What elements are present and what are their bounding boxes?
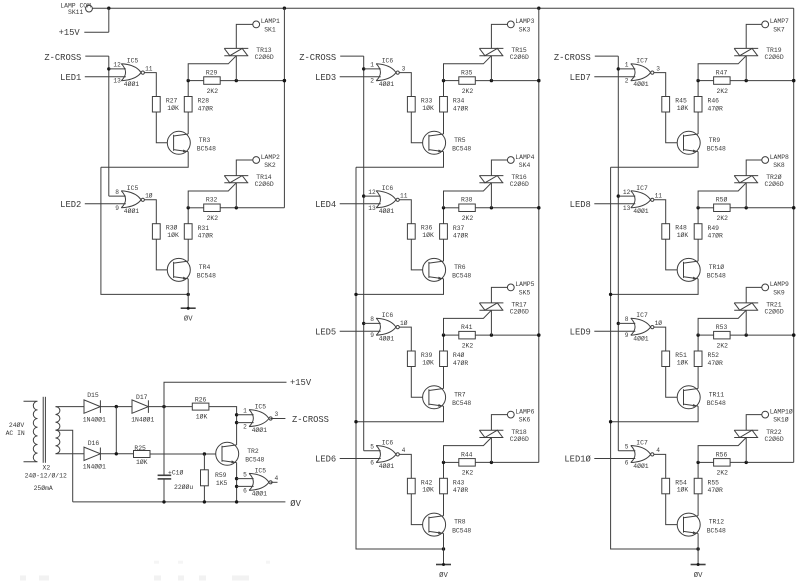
svg-text:4ØØ1: 4ØØ1: [379, 462, 395, 470]
svg-text:1Ø: 1Ø: [145, 192, 153, 199]
svg-text:TR15: TR15: [511, 47, 527, 54]
svg-text:AC IN: AC IN: [6, 430, 25, 437]
svg-text:BC548: BC548: [197, 273, 216, 280]
wire Z-CROSS bus tap to IC6 pin 12: [364, 195, 381, 197]
triac TR14: [188, 174, 274, 208]
svg-text:9: 9: [115, 205, 119, 212]
NOR gate IC7 (12,13->11): [623, 185, 662, 215]
NOR gate IC7 (5,6->4): [625, 439, 660, 469]
svg-text:1ØK: 1ØK: [167, 231, 179, 239]
svg-text:3: 3: [275, 411, 279, 418]
wire secondary bottom lead: [56, 453, 85, 455]
svg-text:R37: R37: [453, 225, 465, 232]
resistor R25 10K: [134, 445, 151, 466]
diode D15 1N4001: [83, 392, 106, 424]
svg-text:3: 3: [656, 65, 660, 72]
resistor R43 470R: [440, 462, 469, 515]
svg-text:4: 4: [402, 447, 406, 454]
wire emitter 0V rail vertical: [356, 167, 445, 551]
svg-text:R54: R54: [675, 479, 687, 486]
svg-text:1ØK: 1ØK: [677, 486, 689, 494]
svg-text:SK5: SK5: [519, 289, 531, 296]
svg-text:22ØØu: 22ØØu: [174, 483, 193, 491]
svg-text:1ØK: 1ØK: [167, 104, 179, 112]
resistor R35 2K2: [459, 70, 476, 95]
wire IC6 pin 4 to R42: [399, 454, 411, 478]
svg-text:1ØK: 1ØK: [422, 104, 434, 112]
transistor TR3: [167, 131, 216, 154]
svg-text:D15: D15: [87, 392, 99, 399]
transistor TR9: [677, 131, 726, 154]
wire TR3 emitter to 0V rail: [101, 152, 188, 168]
wire R30 to TR4 base: [156, 239, 173, 270]
resistor R42 10K: [407, 478, 434, 494]
wire IC6 pin 11 to R36: [399, 200, 411, 224]
svg-text:SK11: SK11: [68, 9, 84, 16]
svg-text:4ØØ1: 4ØØ1: [124, 207, 140, 215]
NOR gate IC7 (8,9->10): [625, 312, 663, 342]
svg-text:1ØK: 1ØK: [196, 412, 208, 420]
triac TR13: [188, 47, 274, 81]
wire TR11 emitter to 0V rail: [609, 406, 698, 423]
svg-text:LAMP6: LAMP6: [515, 408, 534, 415]
svg-text:ØV: ØV: [184, 315, 193, 324]
wire D16 cathode to R25: [100, 452, 133, 455]
svg-text:TR6: TR6: [454, 264, 466, 271]
wire Z-CROSS bus tap to IC6 pin 8: [364, 322, 381, 324]
wire gate-node line (R56): [696, 461, 793, 464]
wire centre tap to 0V: [56, 430, 73, 502]
node +15V (top left): [59, 8, 109, 38]
node LED5: [315, 327, 381, 337]
wire Z-CROSS bus tap to IC7 pin 12: [618, 195, 635, 197]
svg-text:R31: R31: [198, 225, 210, 232]
svg-text:47ØR: 47ØR: [198, 232, 214, 240]
wire IC5 pin5 input: [237, 478, 254, 480]
wire TR2 emitter to 0V: [235, 463, 238, 502]
svg-text:D16: D16: [88, 440, 100, 447]
resistor R33 10K: [407, 97, 434, 113]
wire TR6 emitter to 0V rail: [354, 279, 443, 296]
svg-text:6: 6: [370, 459, 374, 466]
transistor TR8: [423, 513, 472, 536]
svg-text:1: 1: [243, 408, 247, 415]
lamp terminal LAMP8 SK8: [762, 154, 789, 169]
resistor R38 2K2: [459, 197, 476, 222]
svg-text:BC548: BC548: [707, 527, 726, 534]
lamp terminal LAMP10 SK10: [762, 407, 793, 423]
svg-text:ØV: ØV: [694, 571, 703, 580]
lamp terminal LAMP1 SK1: [253, 18, 280, 33]
resistor R46 470R: [694, 81, 723, 134]
svg-text:R36: R36: [421, 225, 433, 232]
svg-text:SK1: SK1: [264, 26, 276, 33]
wire R51 to TR11 base: [666, 367, 684, 398]
resistor R34 470R: [440, 81, 469, 134]
wire TR8 emitter to 0V rail: [443, 533, 445, 549]
svg-text:1N4ØØ1: 1N4ØØ1: [131, 415, 154, 423]
transistor TR11: [677, 386, 726, 409]
svg-text:C2Ø6D: C2Ø6D: [510, 180, 529, 188]
wire D17 cathode to R26: [148, 405, 192, 408]
wire R33 to TR5 base: [411, 112, 429, 143]
resistor R47 2K2: [714, 70, 731, 95]
svg-text:R28: R28: [198, 98, 210, 105]
wire gate-node line (R47): [696, 79, 795, 82]
NOR gate IC5 (1,2->3) zero-cross detector: [243, 404, 278, 434]
wire Z-CROSS bus tap to IC7 pin 5: [618, 450, 635, 452]
svg-text:24ØV: 24ØV: [9, 421, 25, 429]
svg-text:8: 8: [625, 316, 629, 323]
svg-text:C2Ø6D: C2Ø6D: [510, 53, 529, 61]
svg-text:2K2: 2K2: [462, 215, 474, 222]
lamp terminal LAMP5 SK5: [507, 281, 534, 296]
resistor R31 470R: [184, 208, 213, 261]
svg-text:+15V: +15V: [59, 28, 81, 38]
svg-text:BC548: BC548: [197, 146, 216, 153]
node LED1: [60, 73, 126, 83]
wire lamp-common vertical: [792, 8, 795, 462]
svg-text:R44: R44: [461, 451, 473, 458]
wire R36 to TR6 base: [411, 239, 429, 270]
svg-text:C2Ø6D: C2Ø6D: [510, 308, 529, 316]
svg-text:LAMP5: LAMP5: [515, 281, 534, 288]
svg-text:R46: R46: [708, 98, 720, 105]
transistor TR4: [167, 258, 216, 281]
svg-text:TR16: TR16: [511, 174, 527, 181]
faint scan artifacts at bottom edge: [20, 561, 270, 581]
wire IC5 pin6 input: [237, 485, 254, 487]
svg-text:R3Ø: R3Ø: [166, 224, 178, 232]
svg-text:TR21: TR21: [766, 302, 782, 309]
svg-text:TR4: TR4: [199, 264, 211, 271]
svg-text:LAMP2: LAMP2: [261, 154, 280, 161]
wire TR7 emitter to 0V rail: [354, 406, 443, 423]
svg-text:R48: R48: [675, 225, 687, 232]
resistor R29 2K2: [204, 70, 221, 95]
svg-text:4ØØ1: 4ØØ1: [124, 80, 140, 88]
triac TR22: [698, 429, 784, 463]
wire LAMP9 to TR21 MT2: [746, 287, 762, 303]
svg-text:9: 9: [625, 332, 629, 339]
svg-text:IC5: IC5: [127, 58, 139, 65]
NOR gate IC6 (8,9->10): [370, 312, 408, 342]
svg-text:2K2: 2K2: [717, 215, 729, 222]
svg-text:LED4: LED4: [315, 200, 336, 210]
wire IC5 pin1 input: [237, 414, 254, 416]
svg-text:1ØK: 1ØK: [422, 231, 434, 239]
svg-text:R51: R51: [675, 352, 687, 359]
wire IC5 pin2 input: [237, 422, 254, 424]
wire R45 to TR9 base: [666, 112, 684, 143]
wire gate-node line (R41): [442, 333, 541, 336]
resistor R59 1K5: [201, 454, 228, 502]
wire Z-CROSS bus tap to IC5 pin 12: [109, 68, 126, 70]
svg-text:1ØK: 1ØK: [422, 486, 434, 494]
wire gate-node line (R35): [442, 79, 541, 82]
svg-text:R53: R53: [716, 324, 728, 331]
svg-text:8: 8: [115, 189, 119, 196]
svg-text:2K2: 2K2: [462, 88, 474, 95]
svg-text:IC6: IC6: [382, 312, 394, 319]
wire Z-CROSS bus tap to IC5 pin 8: [109, 195, 126, 197]
svg-text:C2Ø6D: C2Ø6D: [765, 180, 784, 188]
svg-text:IC7: IC7: [636, 312, 648, 319]
svg-text:R45: R45: [675, 98, 687, 105]
svg-text:12: 12: [623, 189, 631, 196]
svg-text:47ØR: 47ØR: [453, 486, 469, 494]
ground 0V: [691, 549, 706, 580]
wire LAMP2 to TR14 MT2: [236, 160, 253, 176]
svg-text:R32: R32: [206, 197, 218, 204]
svg-text:1ØK: 1ØK: [136, 458, 148, 466]
svg-text:R41: R41: [461, 324, 473, 331]
resistor R28 470R: [184, 81, 213, 134]
wire TR10 emitter to 0V rail: [609, 279, 698, 296]
svg-text:TR2: TR2: [247, 448, 259, 455]
svg-text:1: 1: [625, 62, 629, 69]
node LED7: [570, 73, 636, 83]
svg-text:C2Ø6D: C2Ø6D: [765, 435, 784, 443]
resistor R48 10K: [662, 224, 689, 240]
svg-text:8: 8: [370, 316, 374, 323]
svg-text:R34: R34: [453, 98, 465, 105]
resistor R40 470R: [440, 335, 469, 388]
resistor R53 2K2: [714, 324, 731, 349]
svg-text:1ØK: 1ØK: [677, 104, 689, 112]
resistor R41 2K2: [459, 324, 476, 349]
svg-text:TR13: TR13: [256, 47, 272, 54]
transformer X2 core: [43, 397, 45, 463]
svg-text:9: 9: [370, 332, 374, 339]
svg-text:5: 5: [243, 471, 247, 478]
svg-text:5: 5: [625, 443, 629, 450]
svg-text:25ØmA: 25ØmA: [34, 484, 53, 492]
wire R27 to TR3 base: [156, 112, 173, 143]
svg-text:IC6: IC6: [382, 58, 394, 65]
svg-text:R47: R47: [716, 70, 728, 77]
svg-text:+15V: +15V: [290, 378, 312, 388]
svg-text:+C1Ø: +C1Ø: [168, 468, 184, 476]
resistor R39 10K: [407, 351, 434, 367]
svg-text:R29: R29: [206, 70, 218, 77]
svg-text:SK8: SK8: [773, 162, 785, 169]
diode D16 1N4001: [83, 440, 106, 471]
svg-text:24Ø-12/Ø/12: 24Ø-12/Ø/12: [25, 471, 67, 479]
svg-text:R5Ø: R5Ø: [716, 196, 728, 204]
svg-text:2K2: 2K2: [717, 342, 729, 349]
svg-text:5: 5: [370, 443, 374, 450]
resistor R30 10K: [152, 224, 179, 240]
wire IC7 pin 3 to R45: [654, 73, 666, 97]
svg-text:LAMP1: LAMP1: [261, 18, 280, 25]
node LED3: [315, 73, 381, 83]
node +15V output: [164, 378, 312, 407]
resistor R36 10K: [407, 224, 434, 240]
wire gate-node line (R29): [187, 79, 287, 82]
svg-text:LED6: LED6: [315, 455, 336, 465]
svg-text:C2Ø6D: C2Ø6D: [255, 180, 274, 188]
svg-text:47ØR: 47ØR: [198, 104, 214, 112]
svg-text:13: 13: [623, 205, 631, 212]
svg-text:13: 13: [368, 205, 376, 212]
svg-text:4ØØ1: 4ØØ1: [379, 207, 395, 215]
svg-text:4: 4: [656, 447, 660, 454]
svg-text:4ØØ1: 4ØØ1: [379, 80, 395, 88]
svg-text:1ØK: 1ØK: [422, 358, 434, 366]
resistor R37 470R: [440, 208, 469, 261]
svg-text:Z-CROSS: Z-CROSS: [292, 415, 329, 425]
wire LAMP8 to TR20 MT2: [746, 160, 762, 176]
svg-text:BC548: BC548: [707, 146, 726, 153]
svg-text:IC5: IC5: [127, 185, 139, 192]
wire junction vertical D15-D16: [115, 407, 117, 454]
resistor R27 10K: [152, 97, 179, 113]
resistor R50 2K2: [714, 196, 731, 222]
svg-text:BC548: BC548: [245, 456, 264, 463]
wire +15V / LAMP COM top rail: [92, 7, 793, 10]
triac TR21: [698, 302, 784, 336]
node Z-CROSS (column IC6): [299, 53, 363, 63]
svg-text:TR9: TR9: [709, 137, 721, 144]
lamp terminal LAMP9 SK9: [762, 281, 789, 296]
svg-text:R52: R52: [708, 352, 720, 359]
svg-text:LED1Ø: LED1Ø: [564, 455, 591, 465]
triac TR16: [444, 174, 530, 208]
transistor TR12: [677, 513, 726, 536]
svg-text:SK3: SK3: [519, 26, 531, 33]
wire TR4 emitter to 0V rail: [187, 279, 189, 295]
svg-text:BC548: BC548: [452, 527, 471, 534]
svg-text:1: 1: [370, 62, 374, 69]
NOR gate IC5 (12,13->11): [113, 58, 152, 88]
svg-text:Z-CROSS: Z-CROSS: [554, 53, 591, 63]
transistor TR6: [423, 258, 472, 281]
wire lamp-common vertical: [283, 8, 286, 208]
wire Z-CROSS bus vertical: [107, 56, 110, 196]
svg-text:47ØR: 47ØR: [453, 104, 469, 112]
wire Z-CROSS bus vertical: [362, 56, 365, 451]
wire R25 to TR2 base: [150, 452, 223, 455]
wire LAMP7 to TR19 MT2: [746, 24, 762, 48]
label 240V AC IN: [6, 421, 25, 437]
wire Z-CROSS bus tap to IC6 pin 5: [364, 450, 381, 452]
svg-text:3: 3: [402, 65, 406, 72]
node Z-CROSS output: [270, 415, 329, 425]
svg-text:SK1Ø: SK1Ø: [773, 416, 789, 424]
wire emitter 0V rail vertical: [101, 167, 190, 296]
svg-text:X2: X2: [43, 465, 51, 472]
svg-text:4ØØ1: 4ØØ1: [633, 80, 649, 88]
wire LAMP1 to TR13 MT2: [236, 24, 253, 48]
svg-text:1Ø: 1Ø: [400, 320, 408, 327]
lamp terminal LAMP2 SK2: [253, 154, 280, 169]
svg-text:SK4: SK4: [519, 162, 531, 169]
svg-text:SK2: SK2: [264, 162, 276, 169]
transistor TR7: [423, 386, 472, 409]
wire TR12 emitter to 0V rail: [697, 533, 699, 549]
wire IC7 pin 11 to R48: [654, 200, 666, 224]
svg-text:TR5: TR5: [454, 137, 466, 144]
lamp terminal LAMP4 SK4: [507, 154, 534, 169]
transistor TR10: [677, 258, 726, 281]
svg-text:47ØR: 47ØR: [453, 232, 469, 240]
node Z-CROSS (column IC7): [554, 53, 618, 63]
wire IC5 pin 10 to R30: [144, 200, 156, 224]
transformer X2 secondary winding: [56, 407, 60, 454]
wire R42 to TR8 base: [411, 494, 429, 525]
svg-text:IC7: IC7: [636, 185, 648, 192]
svg-text:R38: R38: [461, 197, 473, 204]
svg-text:2: 2: [243, 424, 247, 431]
svg-text:R43: R43: [453, 479, 465, 486]
svg-text:BC548: BC548: [707, 273, 726, 280]
svg-text:R33: R33: [421, 98, 433, 105]
wire IC6 pin 3 to R33: [399, 73, 411, 97]
svg-text:12: 12: [113, 62, 121, 69]
wire lamp-common vertical: [537, 8, 540, 462]
node 0V rail: [73, 499, 302, 509]
svg-text:47ØR: 47ØR: [708, 232, 724, 240]
svg-text:IC5: IC5: [255, 404, 267, 411]
svg-text:BC548: BC548: [452, 146, 471, 153]
NOR gate IC6 (12,13->11): [368, 185, 407, 215]
wire Z-CROSS bus tap to IC7 pin 8: [618, 322, 635, 324]
svg-text:IC7: IC7: [636, 58, 648, 65]
svg-text:Z-CROSS: Z-CROSS: [44, 53, 81, 63]
node LED6: [315, 455, 381, 465]
svg-text:LED1: LED1: [60, 73, 81, 83]
svg-text:Z-CROSS: Z-CROSS: [299, 53, 336, 63]
svg-text:TR7: TR7: [454, 391, 466, 398]
resistor R56 2K2: [714, 451, 731, 476]
svg-text:R4Ø: R4Ø: [453, 351, 465, 359]
wire Z-CROSS bus tap to IC6 pin 1: [364, 68, 381, 70]
wire emitter 0V rail vertical: [611, 167, 700, 551]
capacitor C10 2200u: [158, 407, 194, 502]
wire IC5 pin4 stub: [270, 481, 277, 483]
NOR gate IC7 (1,2->3): [625, 58, 660, 88]
svg-text:47ØR: 47ØR: [708, 359, 724, 367]
lamp terminal LAMP3 SK3: [507, 18, 534, 33]
svg-text:TR17: TR17: [511, 302, 527, 309]
svg-text:4: 4: [275, 475, 279, 482]
svg-text:TR12: TR12: [709, 519, 725, 526]
svg-text:IC7: IC7: [636, 439, 648, 446]
label X2 240-12/0/12 250mA: [25, 465, 67, 493]
svg-text:1ØK: 1ØK: [677, 231, 689, 239]
svg-text:TR22: TR22: [766, 429, 782, 436]
triac TR19: [698, 47, 784, 81]
wire secondary top lead: [56, 406, 85, 408]
svg-text:1N4ØØ1: 1N4ØØ1: [83, 415, 106, 423]
resistor R51 10K: [662, 351, 689, 367]
svg-text:6: 6: [625, 459, 629, 466]
svg-text:47ØR: 47ØR: [708, 104, 724, 112]
resistor R32 2K2: [204, 197, 221, 222]
resistor R26 10K: [192, 396, 209, 420]
svg-text:2K2: 2K2: [717, 470, 729, 477]
svg-text:TR1Ø: TR1Ø: [709, 263, 725, 271]
resistor R49 470R: [694, 208, 723, 261]
svg-text:C2Ø6D: C2Ø6D: [255, 53, 274, 61]
svg-text:LAMP8: LAMP8: [770, 154, 789, 161]
wire IC7 pin 10 to R51: [654, 327, 666, 351]
svg-text:C2Ø6D: C2Ø6D: [765, 53, 784, 61]
svg-text:2: 2: [625, 78, 629, 85]
svg-text:IC6: IC6: [382, 185, 394, 192]
svg-text:LED9: LED9: [570, 327, 591, 337]
